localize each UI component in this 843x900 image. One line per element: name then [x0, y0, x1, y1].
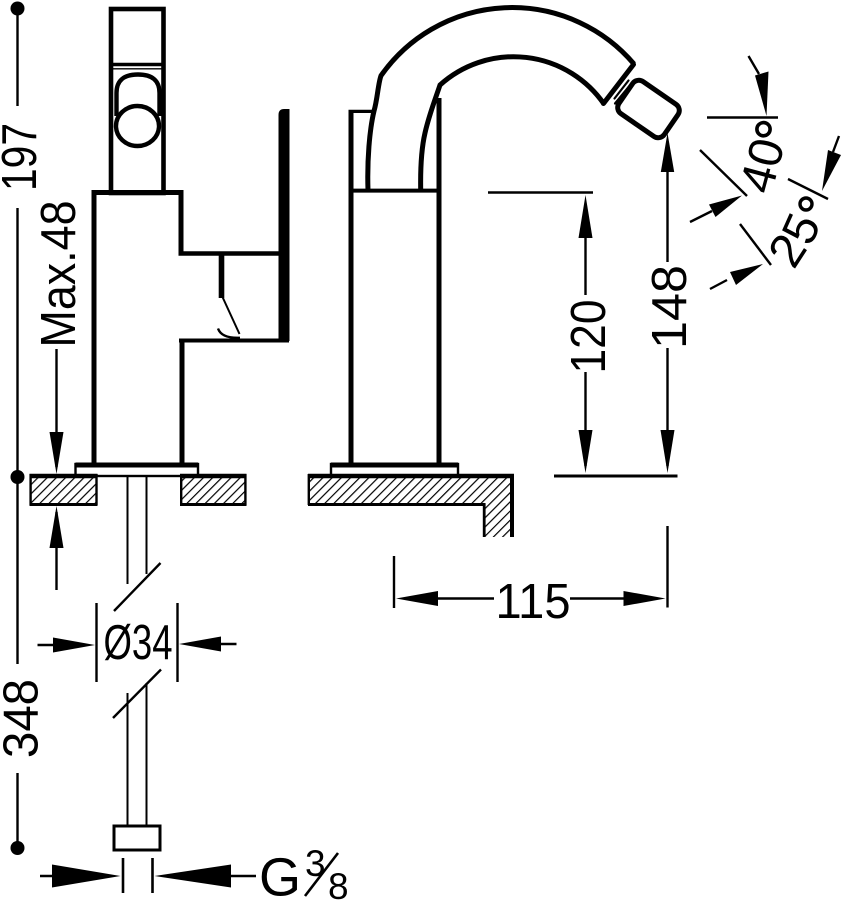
svg-text:148: 148	[643, 265, 697, 349]
base plate top thick edge	[76, 463, 199, 468]
svg-text:Ø34: Ø34	[104, 616, 173, 670]
svg-text:348: 348	[0, 679, 49, 758]
dim 197 line lower	[16, 208, 18, 477]
deck side L-shape hatched	[308, 474, 513, 537]
label G3/8	[259, 843, 349, 900]
svg-text:G: G	[259, 848, 301, 900]
dim 148 upper arrowhead	[661, 133, 674, 172]
aerator upper capsule	[117, 75, 160, 117]
handle lever bar	[279, 109, 290, 341]
nozzle	[615, 77, 682, 140]
spout divider line thick	[111, 63, 164, 67]
base plate side	[331, 464, 458, 476]
dim 197 top dot	[11, 2, 25, 16]
pipe break slash lower	[113, 670, 161, 719]
dim O34 ext line right	[176, 603, 178, 682]
dim O34 ext line left	[95, 603, 97, 682]
dim 115 ext line right	[666, 526, 668, 608]
dim Max.48 lower arrowhead	[50, 506, 64, 548]
spout divider line thin	[111, 68, 164, 70]
dim 25deg arrow lower	[710, 264, 763, 289]
dim Max.48 lower line	[55, 512, 57, 590]
dim 120 upper line	[584, 232, 586, 295]
dim 120 upper arrowhead	[579, 195, 593, 238]
aerator lower ellipse	[116, 106, 159, 146]
deck hatched block middle	[180, 474, 247, 505]
spout inner curve	[421, 57, 604, 191]
column	[349, 98, 440, 464]
handle bottom line	[179, 339, 289, 343]
dim 25deg sector tick	[740, 224, 771, 265]
svg-text:197: 197	[0, 123, 47, 191]
deck surface ext line right	[554, 475, 678, 478]
dim G3/8 left arrow	[40, 865, 121, 888]
dim 40deg sector tick	[700, 150, 747, 196]
dim 148 upper line	[666, 170, 668, 262]
dim 348 bottom dot	[11, 841, 25, 855]
cartridge top line	[179, 251, 279, 255]
dim 120 ref line	[488, 191, 593, 193]
dim Max.48 upper line	[55, 349, 57, 467]
pivot pin	[219, 254, 225, 298]
connector nut	[114, 826, 160, 850]
base plate front	[76, 464, 199, 476]
dim 348 line lower	[16, 773, 18, 848]
dim 25deg arrow upper	[822, 136, 841, 191]
dim 40deg arrow lower	[690, 196, 742, 223]
pivot diagonal	[223, 297, 240, 334]
dim 115 ext line left	[393, 556, 395, 608]
dim G3/8 tick left	[122, 858, 125, 893]
supply pipe lower	[128, 683, 147, 827]
base plate side top thick edge	[331, 463, 458, 468]
joint strip line b	[615, 84, 632, 104]
dim 115 right arrow	[624, 591, 666, 606]
dim O34 right arrow	[179, 637, 237, 652]
dim 40deg text	[730, 133, 795, 199]
dim 40deg arrow from top	[749, 56, 769, 116]
dim 148 lower line	[666, 348, 668, 466]
dim G3/8 tick right	[151, 858, 154, 893]
dim 120 lower arrowhead	[579, 430, 593, 473]
pivot swing arc	[218, 329, 240, 338]
dim 25deg tick right	[788, 179, 828, 199]
dim O34 left arrow	[38, 638, 96, 653]
dim 148 lower arrowhead	[661, 430, 675, 473]
dim Max.48 upper arrowhead	[50, 432, 64, 474]
svg-text:115: 115	[496, 575, 571, 629]
dim G3/8 right arrow	[155, 865, 257, 888]
dim 115 left arrow	[396, 591, 438, 606]
svg-text:Max.48: Max.48	[32, 201, 86, 348]
body right edge lower	[180, 341, 185, 465]
spout end cap edge	[604, 65, 634, 104]
deck hatched block left	[30, 474, 98, 505]
svg-text:120: 120	[562, 300, 616, 374]
dim 115 line left	[432, 597, 494, 599]
spout outer curve	[368, 8, 634, 191]
dim 120 lower line	[584, 372, 586, 466]
pipe break slash upper	[114, 563, 161, 611]
joint strip line a	[615, 81, 629, 99]
spout upper rectangle	[111, 9, 164, 193]
shared dot at deck	[11, 470, 25, 484]
dim 25deg text	[759, 206, 832, 276]
svg-text:8: 8	[328, 866, 349, 900]
dim 40deg ref line	[707, 116, 778, 118]
dim 197 line upper	[16, 9, 18, 107]
faucet body outline	[94, 193, 181, 465]
supply pipe upper	[128, 476, 147, 584]
dim 348 line upper	[16, 477, 18, 664]
svg-text:3: 3	[305, 843, 326, 884]
dim 115 line right	[570, 597, 634, 599]
